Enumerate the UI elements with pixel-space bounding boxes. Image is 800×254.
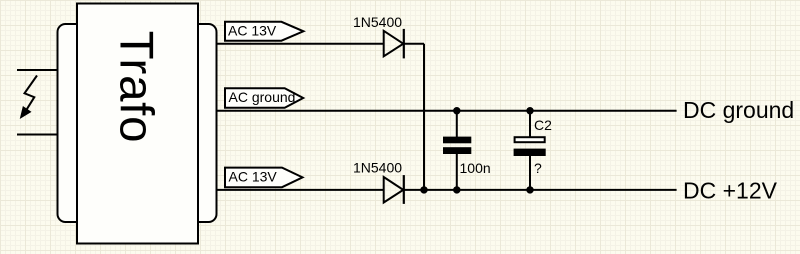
wire primary stub bottom xyxy=(17,134,58,136)
capacitor C2 bottom lead xyxy=(529,156,531,190)
wire primary stub top xyxy=(17,69,58,71)
svg-text:1N5400: 1N5400 xyxy=(353,160,402,176)
svg-text:?: ? xyxy=(534,160,542,176)
junction dot C1 on ground rail xyxy=(453,107,460,114)
junction dot C2 on +12V rail xyxy=(526,186,533,193)
wire D1 cathode to corner xyxy=(404,43,424,45)
wire AC bottom from transformer to diode D2 xyxy=(217,189,385,191)
junction dot D1 output on +12V rail xyxy=(420,186,427,193)
net label flag AC 13V (bottom) xyxy=(225,168,303,188)
junction dot C1 on +12V rail xyxy=(453,186,460,193)
mains danger lightning arrow xyxy=(21,76,38,119)
diode D1 1N5400 xyxy=(384,29,404,59)
svg-text:DC ground: DC ground xyxy=(683,97,794,123)
svg-text:AC 13V: AC 13V xyxy=(229,169,278,185)
wire DC +12V rail xyxy=(404,189,677,191)
svg-text:DC +12V: DC +12V xyxy=(683,178,778,204)
capacitor C1 100n plates xyxy=(443,137,471,154)
svg-text:1N5400: 1N5400 xyxy=(353,14,402,30)
transformer T1 left winding bracket xyxy=(58,24,94,222)
transformer T1 right winding bracket xyxy=(181,24,217,222)
junction dot C2 on ground rail xyxy=(526,107,533,114)
diode D2 1N5400 xyxy=(384,175,404,204)
svg-text:AC ground: AC ground xyxy=(229,89,296,105)
capacitor C1 100n top lead xyxy=(456,111,458,137)
capacitor C2 top lead xyxy=(529,111,531,137)
svg-text:C2: C2 xyxy=(534,117,552,133)
transformer T1 body xyxy=(77,4,198,244)
net label flag AC 13V (top) xyxy=(225,22,303,41)
svg-text:100n: 100n xyxy=(460,160,491,176)
capacitor C1 100n bottom lead xyxy=(456,154,458,190)
wire DC ground rail xyxy=(217,110,677,112)
capacitor C2 plates (polarized) xyxy=(514,137,546,156)
wire vertical from D1 down to +12V rail xyxy=(423,44,425,190)
svg-text:AC 13V: AC 13V xyxy=(228,22,277,38)
wire AC top from transformer to diode D1 xyxy=(217,43,385,45)
net label flag AC ground (middle) xyxy=(225,88,303,108)
svg-text:Trafo: Trafo xyxy=(110,31,163,144)
